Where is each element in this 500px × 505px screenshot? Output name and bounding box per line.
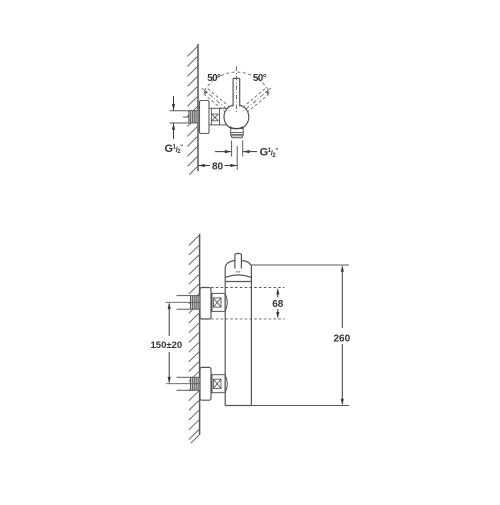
dimension 68: [272, 288, 284, 319]
inlet extension lines (top view): [170, 111, 200, 123]
body connector lines to ball (top view): [220, 108, 229, 125]
top union nut with cross (front view): [212, 293, 227, 311]
label G1/2 right: [260, 146, 279, 158]
outlet extension lines (top view): [232, 141, 243, 170]
svg-text:80: 80: [212, 161, 224, 172]
diverter knob (front view): [235, 253, 242, 268]
lever handle vertical (top view): [233, 67, 240, 113]
lever handle rotated left 50deg (dashed): [200, 86, 233, 115]
top wall flange (front view): [200, 288, 211, 320]
svg-text:G1/2": G1/2": [260, 146, 279, 158]
label 50deg left: [207, 73, 221, 84]
lever handle rotated right 50deg (dashed): [240, 86, 273, 115]
bottom union nut with cross (front view): [212, 375, 227, 393]
svg-text:G1/2": G1/2": [165, 143, 184, 155]
union nut with cross (top view): [209, 108, 220, 125]
svg-text:150±20: 150±20: [151, 340, 183, 351]
wall (top view): [197, 44, 199, 171]
G1/2 dimension right (top view): [215, 150, 257, 153]
bottom inlet: threaded pipe through wall: [177, 377, 200, 390]
outlet stub below ball (top view): [230, 127, 243, 138]
wall (front view): [199, 234, 201, 435]
label 50deg right: [253, 73, 267, 84]
threaded inlet through wall (top view): [189, 111, 198, 123]
dimension 80 (top view): [198, 161, 237, 172]
svg-text:50°: 50°: [253, 73, 267, 84]
label G1/2 left: [165, 143, 184, 155]
dashed lines for 68 dimension: [211, 288, 285, 319]
wall hatching (front view): [189, 235, 200, 443]
dimension 150±20: [151, 302, 183, 383]
G1/2 dimension arrows left (top view): [172, 96, 175, 139]
wall flange (top view): [200, 101, 210, 134]
top inlet: threaded pipe through wall: [177, 296, 200, 310]
mixer ball (top view): [224, 105, 249, 130]
svg-text:50°: 50°: [207, 73, 221, 84]
svg-text:68: 68: [272, 299, 284, 310]
bottom wall flange (front view): [200, 367, 211, 400]
260 extension lines: [251, 265, 349, 406]
bottom inlet center line: [166, 383, 200, 385]
crown arc (front view): [225, 275, 251, 282]
logo dots (front view): [236, 271, 240, 273]
wall hatching (top view): [187, 46, 198, 175]
top inlet center line: [166, 301, 200, 303]
swing arc 50deg (dashed): [203, 72, 269, 94]
dimension 260: [334, 265, 351, 406]
mixer body (front view): [225, 265, 251, 405]
svg-text:260: 260: [334, 333, 351, 344]
body dome top (front view): [225, 261, 250, 268]
